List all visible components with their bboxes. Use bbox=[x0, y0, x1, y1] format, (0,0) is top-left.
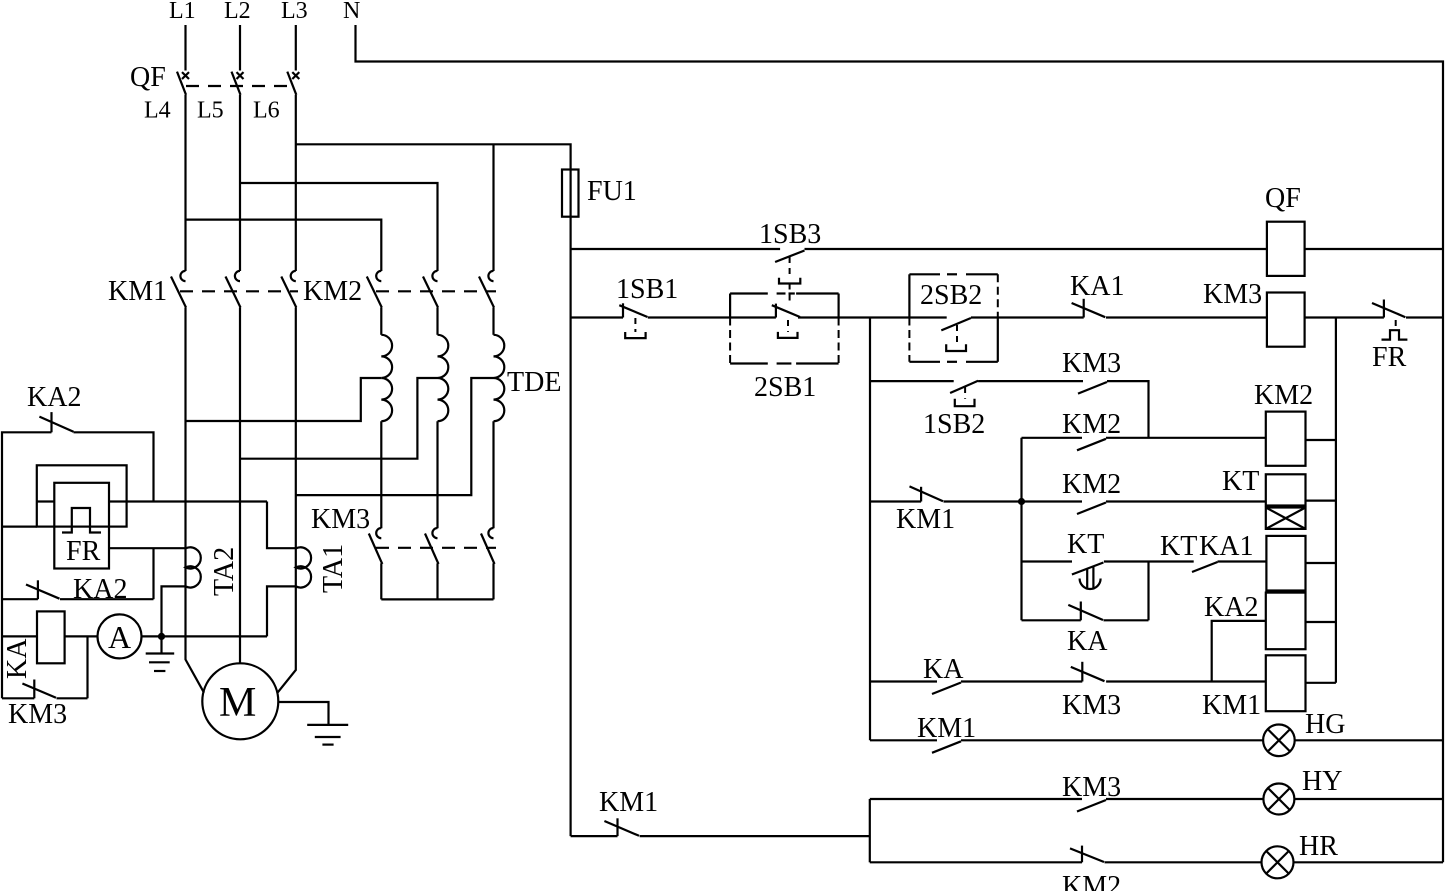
svg-text:M: M bbox=[219, 680, 256, 726]
wire branch L6 to FU1 and KM2 pole3 bbox=[296, 144, 571, 169]
wire 1SB2 rung right corner down bbox=[1107, 381, 1149, 438]
coil KM3 bbox=[1267, 293, 1305, 347]
autotransformer TDE coil 1 bbox=[381, 335, 392, 421]
wire KM1 pole2 down to motor bbox=[239, 308, 241, 664]
wire KA rung left bbox=[870, 680, 937, 682]
wire KM2 rung right to coil bbox=[1106, 437, 1266, 439]
wire 1SB2 rung middle bbox=[978, 380, 1083, 382]
autotransformer TDE coil 3 bbox=[494, 335, 505, 421]
wire phase A column bbox=[184, 95, 186, 271]
wire FR to right rail bbox=[1406, 316, 1443, 318]
svg-text:2SB1: 2SB1 bbox=[754, 372, 816, 403]
contact KM1 (NO) on HG rung bbox=[932, 741, 961, 753]
contactor KM1 pole 2 bbox=[226, 271, 241, 308]
thermal relay FR outer frame bbox=[37, 465, 127, 526]
wire TA2 top lead bbox=[109, 547, 186, 549]
wire row1 left bbox=[571, 248, 781, 250]
wire KT rung right to coil bbox=[1106, 500, 1266, 502]
wire phase B column bbox=[239, 95, 241, 271]
svg-text:FR: FR bbox=[1372, 342, 1407, 373]
svg-text:L4: L4 bbox=[144, 98, 171, 124]
svg-text:FU1: FU1 bbox=[587, 176, 637, 207]
wire HR rung to lamp bbox=[1105, 861, 1262, 863]
contactor KM3 pole 2 bbox=[425, 528, 439, 564]
svg-text:L2: L2 bbox=[224, 0, 251, 24]
svg-text:QF: QF bbox=[130, 62, 166, 93]
wire rail to KA coil bbox=[2, 635, 37, 637]
motor M bbox=[202, 663, 278, 739]
svg-text:HG: HG bbox=[1305, 709, 1345, 740]
wire row2 to KA1 bbox=[971, 316, 1084, 318]
relay KA coil bbox=[37, 611, 65, 663]
wire HR rung left bbox=[870, 861, 1082, 863]
contactor KM2 pole 3 bbox=[479, 271, 494, 308]
2SB2 actuator dashes bbox=[956, 325, 958, 344]
wire star bus bbox=[381, 598, 493, 600]
wire TDE tap 2 bbox=[240, 378, 438, 459]
wire row2 to 2SB2 bbox=[798, 316, 947, 318]
2SB1 actuator dashes bbox=[787, 320, 789, 332]
svg-text:L1: L1 bbox=[169, 0, 196, 24]
wire HY rung to lamp bbox=[1106, 798, 1264, 800]
wire TDE tap 1 bbox=[186, 378, 382, 421]
svg-text:KM1: KM1 bbox=[599, 787, 658, 818]
ground (measuring circuit) bbox=[146, 636, 175, 671]
current transformer TA2 winding bbox=[186, 547, 201, 587]
svg-text:KM3: KM3 bbox=[1062, 348, 1121, 379]
wire KM3 outputs to star bus bbox=[380, 563, 382, 599]
wire TA1 bottom lead bbox=[267, 586, 296, 636]
svg-text:HR: HR bbox=[1299, 831, 1338, 862]
button 2SB2 box bbox=[909, 274, 997, 362]
contact KM3 (NO) on 1SB2 rung bbox=[1078, 382, 1107, 394]
wire left rail to FR frame bbox=[2, 525, 37, 527]
FR heater glyph bbox=[62, 508, 101, 533]
autotransformer TDE coil 2 bbox=[438, 335, 449, 421]
wire KA2 coil right stub bbox=[1306, 621, 1336, 623]
relay contact KA1 (NC) on row2 bbox=[1072, 299, 1106, 318]
svg-text:KM3: KM3 bbox=[1062, 690, 1121, 721]
wire bottom KM1 feed bbox=[571, 835, 618, 837]
contact KM2 (NO) on KM2 rung bbox=[1077, 439, 1106, 451]
wire N to right rail bbox=[356, 25, 1444, 862]
wire HR rung to right rail bbox=[1294, 861, 1444, 863]
wire L2 drop bbox=[239, 25, 241, 71]
svg-text:KA: KA bbox=[923, 654, 964, 685]
wire control left rail bbox=[569, 217, 571, 836]
svg-text:QF: QF bbox=[1265, 183, 1301, 214]
button 1SB1 (NC) bbox=[619, 303, 647, 317]
wire HG rung to right rail bbox=[1295, 739, 1443, 741]
wire KM1 coil right stub bbox=[1306, 682, 1336, 684]
ammeter A bbox=[98, 614, 142, 658]
wire KA coil to ammeter bbox=[65, 635, 98, 637]
svg-text:KA: KA bbox=[2, 638, 33, 679]
svg-text:KM1: KM1 bbox=[1202, 690, 1261, 721]
svg-text:KM1: KM1 bbox=[108, 276, 167, 307]
button 1SB3 (NO) bbox=[775, 251, 804, 263]
svg-text:KM2: KM2 bbox=[1062, 871, 1121, 891]
lamp HG bbox=[1263, 725, 1295, 757]
wire to KA1 coil bbox=[1218, 560, 1267, 562]
2SB2 cap bbox=[946, 344, 966, 351]
wire KT/KA right vertical bbox=[1147, 562, 1149, 621]
contact KM3 (NO) on HY rung bbox=[1077, 800, 1106, 812]
junction dot bbox=[158, 633, 165, 640]
svg-text:L3: L3 bbox=[281, 0, 308, 24]
svg-text:KA2: KA2 bbox=[1204, 592, 1258, 623]
junction dot KT rung bbox=[1018, 498, 1025, 505]
wire KM2 pole2 down to TDE coil2 bbox=[436, 308, 438, 335]
contact KM3 (NC) on KA rung bbox=[1071, 662, 1105, 682]
wire TDE coil3 bottom to KM3 bbox=[492, 421, 494, 528]
wire KA rung middle bbox=[961, 680, 1082, 682]
button 2SB2 (NO) bbox=[941, 318, 971, 330]
coil QF bbox=[1267, 222, 1305, 276]
svg-text:TA2: TA2 bbox=[209, 547, 240, 596]
1SB2 cap bbox=[955, 399, 975, 406]
svg-text:KM3: KM3 bbox=[8, 699, 67, 730]
wire L3 drop bbox=[295, 25, 297, 71]
wire branch L5 to KM2 pole2 bbox=[240, 183, 438, 271]
wire KM2 pole1 down to TDE coil1 bbox=[380, 308, 382, 335]
wire KM1 pole3 down to motor bbox=[278, 308, 296, 693]
button 1SB2 (NO) bbox=[950, 381, 978, 393]
contactor KM1 pole 3 bbox=[281, 271, 296, 308]
wire KT rung middle bbox=[944, 500, 1083, 502]
contact KA (NC) lower branch bbox=[1068, 602, 1103, 621]
wire KM2 coil right stub bbox=[1306, 439, 1336, 441]
wire lamp rail vertical bbox=[869, 799, 871, 862]
wire HG rung to lamp bbox=[961, 739, 1263, 741]
wire upper branch to KA1 contact bbox=[1104, 560, 1194, 562]
wire FR output to TA1 bbox=[109, 500, 267, 502]
button 2SB1 box bbox=[730, 294, 839, 364]
wire inner rail bbox=[1335, 318, 1337, 683]
contact KM2 (NO) on KT rung bbox=[1077, 503, 1106, 515]
wire KM3 coil to FR contact bbox=[1305, 316, 1384, 318]
coil KM2 bbox=[1266, 412, 1306, 466]
current transformer TA1 winding bbox=[296, 547, 311, 587]
wire branch down to KM2 pole3 bbox=[492, 144, 494, 271]
svg-text:TDE: TDE bbox=[507, 367, 561, 398]
coil KA2 bbox=[1266, 593, 1306, 650]
contactor KM3 pole 1 bbox=[369, 528, 383, 564]
1SB1 actuator dashes bbox=[634, 318, 636, 332]
contact KA (NO) on KA rung bbox=[932, 683, 961, 695]
wire motor ground lead bbox=[278, 702, 328, 725]
svg-text:KM1: KM1 bbox=[896, 504, 955, 535]
wire HY rung to right rail bbox=[1294, 798, 1443, 800]
thermal contact FR (NC) bbox=[1372, 300, 1405, 318]
wire KT delayed branch (upper) bbox=[1022, 560, 1073, 562]
wire ammeter to junction bbox=[142, 635, 268, 637]
contactor KM2 pole 1 bbox=[367, 271, 382, 308]
wire KA rung right to KM1 coil bbox=[1106, 680, 1266, 682]
coil KT delay box bbox=[1266, 508, 1306, 529]
KM1 linkage dashes bbox=[180, 290, 298, 292]
FR trip glyph bbox=[1382, 330, 1408, 339]
wire vertical 1021 down bbox=[1020, 438, 1022, 621]
svg-text:KM2: KM2 bbox=[1254, 380, 1313, 411]
svg-text:KT: KT bbox=[1067, 529, 1104, 560]
1SB1 cap bbox=[625, 332, 645, 338]
svg-text:KA1: KA1 bbox=[1199, 531, 1253, 562]
contactor KM3 pole 3 bbox=[481, 528, 495, 564]
contact KM1 (NC) on KT rung bbox=[910, 486, 944, 501]
svg-text:KT: KT bbox=[1160, 531, 1197, 562]
wire KT rung left bbox=[870, 500, 921, 502]
wire row2 to 2SB1 bbox=[648, 316, 776, 318]
breaker QF pole 3 bbox=[287, 72, 299, 95]
wire phase C column bbox=[295, 95, 297, 271]
KT delay cup symbol bbox=[1080, 567, 1101, 590]
wire TDE tap 3 bbox=[296, 378, 494, 495]
thermal relay FR element box bbox=[54, 483, 109, 569]
wire TA2 lead down to KA2 wire bbox=[152, 548, 154, 599]
svg-text:KM2: KM2 bbox=[1062, 409, 1121, 440]
svg-text:FR: FR bbox=[66, 536, 101, 567]
contact KA1 (NO) before coil bbox=[1192, 562, 1218, 572]
wire HY rung left bbox=[870, 798, 1082, 800]
wire KA2 top to FR right vertical bbox=[74, 432, 154, 501]
wire TDE coil1 bottom to KM3 bbox=[380, 421, 382, 528]
breaker QF pole 2 bbox=[232, 72, 244, 95]
svg-text:L6: L6 bbox=[253, 98, 280, 124]
svg-text:KM2: KM2 bbox=[303, 276, 362, 307]
svg-text:N: N bbox=[343, 0, 360, 24]
svg-text:KA2: KA2 bbox=[73, 574, 127, 605]
fuse FU1 bbox=[562, 170, 579, 217]
svg-text:KA2: KA2 bbox=[27, 382, 81, 413]
wire KT coil right stub bbox=[1306, 500, 1336, 502]
lamp HR bbox=[1262, 846, 1294, 878]
breaker QF linkage dashes bbox=[186, 85, 294, 87]
wire L1 drop bbox=[184, 25, 186, 71]
wire KM1 pole1 down to motor bbox=[186, 308, 205, 693]
linkage dashes 1SB3 to 2SB1 bbox=[789, 284, 791, 304]
svg-text:HY: HY bbox=[1302, 766, 1342, 797]
svg-text:KT: KT bbox=[1222, 466, 1259, 497]
contact KM2 (NC) on HR rung bbox=[1070, 846, 1104, 863]
svg-text:KM3: KM3 bbox=[311, 504, 370, 535]
svg-text:1SB3: 1SB3 bbox=[759, 219, 821, 250]
2SB1 cap bbox=[778, 332, 798, 338]
wire TA1 top lead from FR bbox=[267, 502, 296, 549]
wire HG rung left bbox=[870, 739, 937, 741]
svg-text:TA1: TA1 bbox=[318, 544, 349, 593]
svg-text:1SB1: 1SB1 bbox=[616, 274, 678, 305]
wire row2 to KM3 coil bbox=[1106, 316, 1267, 318]
contact KT delayed (NO) bbox=[1072, 563, 1104, 575]
contactor KM2 pole 2 bbox=[423, 271, 438, 308]
contact KM3 aux (NC, bottom left) bbox=[2, 680, 88, 699]
contact KA2 top (NC) bbox=[39, 412, 73, 432]
coil KT bbox=[1266, 474, 1306, 505]
ground (motor frame) bbox=[307, 725, 348, 745]
svg-text:A: A bbox=[108, 619, 131, 655]
svg-text:KA: KA bbox=[1067, 626, 1108, 657]
wire KM2 rung bbox=[1022, 437, 1083, 439]
1SB3 cap bbox=[779, 278, 800, 284]
wire 1SB2 rung left bbox=[870, 380, 954, 382]
wire branch L4 to KM2 pole1 bbox=[186, 220, 382, 271]
coil KM1 bbox=[1266, 655, 1306, 711]
wire bottom feed to lamp rail bbox=[640, 835, 870, 837]
svg-text:KM3: KM3 bbox=[1203, 279, 1262, 310]
KM3 linkage dashes bbox=[376, 547, 496, 549]
KM2 linkage dashes bbox=[376, 290, 496, 292]
svg-text:KM2: KM2 bbox=[1062, 469, 1121, 500]
wire FR left link bbox=[37, 500, 55, 502]
contact KM1 (NC) bottom bbox=[604, 818, 639, 836]
contact KA2 bottom (NC) bbox=[2, 580, 154, 599]
wire KA lower branch bbox=[1022, 619, 1081, 621]
1SB3 actuator dashes bbox=[789, 257, 791, 278]
svg-text:1SB2: 1SB2 bbox=[923, 409, 985, 440]
wire KA1 coil right stub bbox=[1306, 562, 1336, 564]
coil KA1 bbox=[1266, 536, 1305, 591]
wire KM2 pole3 down to TDE coil3 bbox=[492, 308, 494, 335]
wire TDE coil2 bottom to KM3 bbox=[436, 421, 438, 528]
contactor KM1 pole 1 bbox=[171, 271, 186, 308]
wire lower branch right bbox=[1104, 619, 1149, 621]
wire row1 right to QF coil bbox=[805, 248, 1267, 250]
wire branch rail x870 bbox=[869, 318, 871, 741]
wire TA2 bottom lead bbox=[162, 586, 186, 636]
svg-text:KA1: KA1 bbox=[1070, 271, 1124, 302]
wire KA coil branch down to KM3 contact bbox=[86, 636, 88, 698]
svg-text:2SB2: 2SB2 bbox=[920, 280, 982, 311]
wire KA2 coil rung bbox=[1212, 621, 1266, 682]
button 2SB1 (NC) bbox=[772, 304, 800, 318]
wire row1 from QF coil to right rail bbox=[1305, 248, 1443, 250]
lamp HY bbox=[1263, 784, 1294, 815]
svg-text:L5: L5 bbox=[197, 98, 224, 124]
breaker QF pole 1 bbox=[177, 72, 189, 95]
wire left rail top bbox=[2, 432, 52, 698]
wire row2 left bbox=[571, 316, 623, 318]
1SB2 actuator dashes bbox=[964, 387, 966, 399]
FR trip dashes bbox=[1395, 320, 1397, 330]
